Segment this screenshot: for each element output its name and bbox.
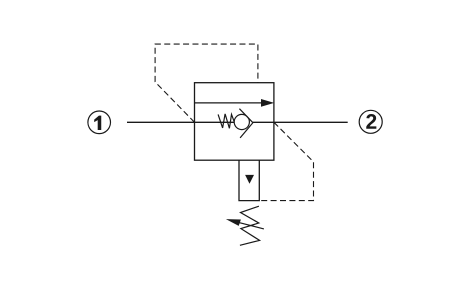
relief spring (adjustable) xyxy=(240,206,260,245)
wire: port 1 line xyxy=(127,121,234,123)
spring chamber port (rectangle below body) xyxy=(239,160,259,200)
check valve seat xyxy=(239,109,253,138)
node 2 (port 2 label) xyxy=(359,110,382,133)
adjustment arrow through spring xyxy=(226,219,264,229)
pilot line (dashed, from port 1 to top of body) xyxy=(155,44,258,122)
wire: port 2 line xyxy=(253,121,348,123)
check valve spring xyxy=(218,114,234,128)
node 1 (port 1 label) xyxy=(88,111,111,134)
flow direction triangle in spring chamber xyxy=(245,175,254,184)
flow arrow (free flow path) xyxy=(195,99,275,107)
check valve ball xyxy=(234,114,249,129)
valve body V1 xyxy=(195,83,274,161)
drain line (dashed, from port 2 to spring chamber) xyxy=(259,122,313,200)
